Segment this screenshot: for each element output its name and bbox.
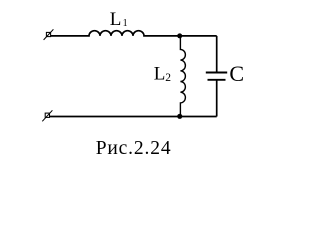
svg-text:C: C	[229, 61, 244, 86]
svg-text:1: 1	[123, 18, 128, 29]
svg-text:L: L	[110, 9, 122, 30]
svg-text:L: L	[154, 64, 166, 85]
svg-text:2: 2	[165, 72, 171, 84]
svg-text:Рис.2.24: Рис.2.24	[96, 138, 172, 159]
